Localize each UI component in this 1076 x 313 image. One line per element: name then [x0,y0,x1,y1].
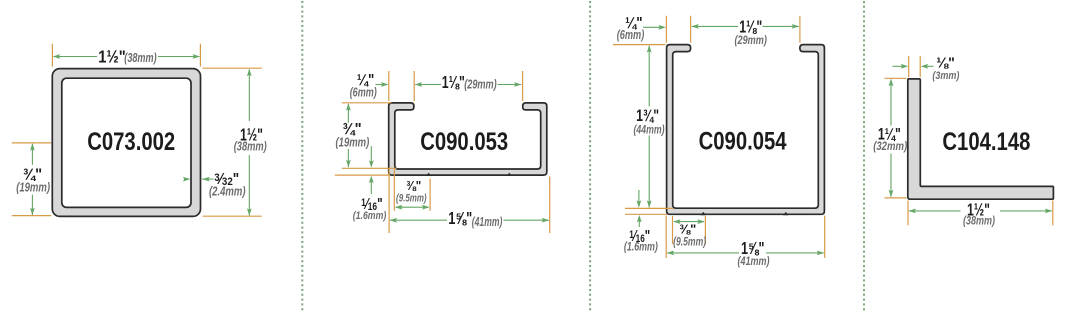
svg-text:(19mm): (19mm) [336,135,370,150]
dimension: leg thickness 1/8in (3mm) panel4 [892,54,959,82]
svg-text:(29mm): (29mm) [735,33,767,47]
dimension: lip width 1/4in (6mm) panel3 [617,15,691,43]
profile C090.053 channel body [389,103,547,175]
svg-text:C090.053: C090.053 [420,128,508,156]
dimension: wall thickness 3/32in (2.4mm) [183,171,246,199]
dimension: height 1-1/4in (32mm) panel4 [873,78,907,198]
dimension: lip width 1/4in (6mm) panel2 [350,71,415,101]
dimension: height 1-3/4in (44mm) panel3 [613,45,666,208]
svg-text:(41mm): (41mm) [738,254,770,268]
profile C073.002 outer square tube body [52,69,200,217]
svg-text:(9.5mm): (9.5mm) [673,235,706,249]
dimension: width 1-1/2in (38mm) panel4 [908,199,1053,227]
svg-text:(6mm): (6mm) [617,27,645,42]
screw guide notch at x=703.3 [700,212,706,215]
svg-text:(38mm): (38mm) [124,50,156,65]
svg-text:(6mm): (6mm) [350,85,377,100]
dimension: right height 1-1/2in (38mm) [203,68,267,216]
svg-text:⅜": ⅜" [406,178,421,193]
dimension: overall width 1-5/8in (41mm) panel3 [666,216,825,269]
svg-text:1⅝": 1⅝" [448,208,472,228]
screw guide notch at x=428.6 [426,173,432,176]
svg-text:(19mm): (19mm) [16,180,50,195]
svg-text:(1.6mm): (1.6mm) [624,240,658,253]
profile C104.148 angle body [908,79,1054,199]
svg-text:C073.002: C073.002 [87,128,175,156]
profile C073.002 inner bore [62,78,191,207]
svg-text:⅛": ⅛" [936,54,955,71]
dimension: opening 1-1/8in (29mm) panel2 [415,71,523,101]
svg-text:(3mm): (3mm) [932,70,959,82]
dimension: opening 1-1/8in (29mm) panel3 [691,16,800,47]
screw guide notch at x=509.3 [506,173,512,176]
svg-text:1⅛": 1⅛" [442,72,465,92]
dimension: screw boss offset 3/8in (9.5mm) panel3 [673,216,707,249]
profile C090.054 channel body [667,45,825,215]
svg-text:(38mm): (38mm) [963,214,995,228]
panel 1: square tube profile C073.002 [52,69,200,217]
dimension: web thickness 1/16in (1.6mm) panel3 [624,190,673,253]
svg-text:C090.054: C090.054 [699,127,787,155]
svg-text:(1.6mm): (1.6mm) [353,210,387,222]
dimension: top width 1-1/2in (38mm) [52,44,200,67]
svg-text:(41mm): (41mm) [472,214,503,229]
dimension: left depth 3/4in (19mm) panel2 [336,103,397,169]
svg-text:(29mm): (29mm) [464,77,497,92]
dimension: left half-height 3/4in (19mm) [12,143,51,216]
svg-text:1½": 1½" [98,47,126,67]
dimension: web thickness 1/16in (1.6mm) panel2 [335,146,390,222]
dotted separator line 1 [301,1,303,313]
screw guide notch at x=785.8 [783,212,789,215]
svg-text:(44mm): (44mm) [634,122,665,136]
dimension: screw boss offset 3/8in (9.5mm) panel2 [394,170,430,211]
dotted separator line 3 [863,1,865,313]
dimension: overall width 1-5/8in (41mm) panel2 [389,169,550,233]
svg-text:(9.5mm): (9.5mm) [396,193,427,205]
svg-text:(38mm): (38mm) [234,138,267,153]
dotted separator line 2 [589,1,591,313]
svg-text:C104.148: C104.148 [942,128,1030,156]
svg-text:(32mm): (32mm) [873,139,907,153]
svg-text:(2.4mm): (2.4mm) [209,184,246,199]
